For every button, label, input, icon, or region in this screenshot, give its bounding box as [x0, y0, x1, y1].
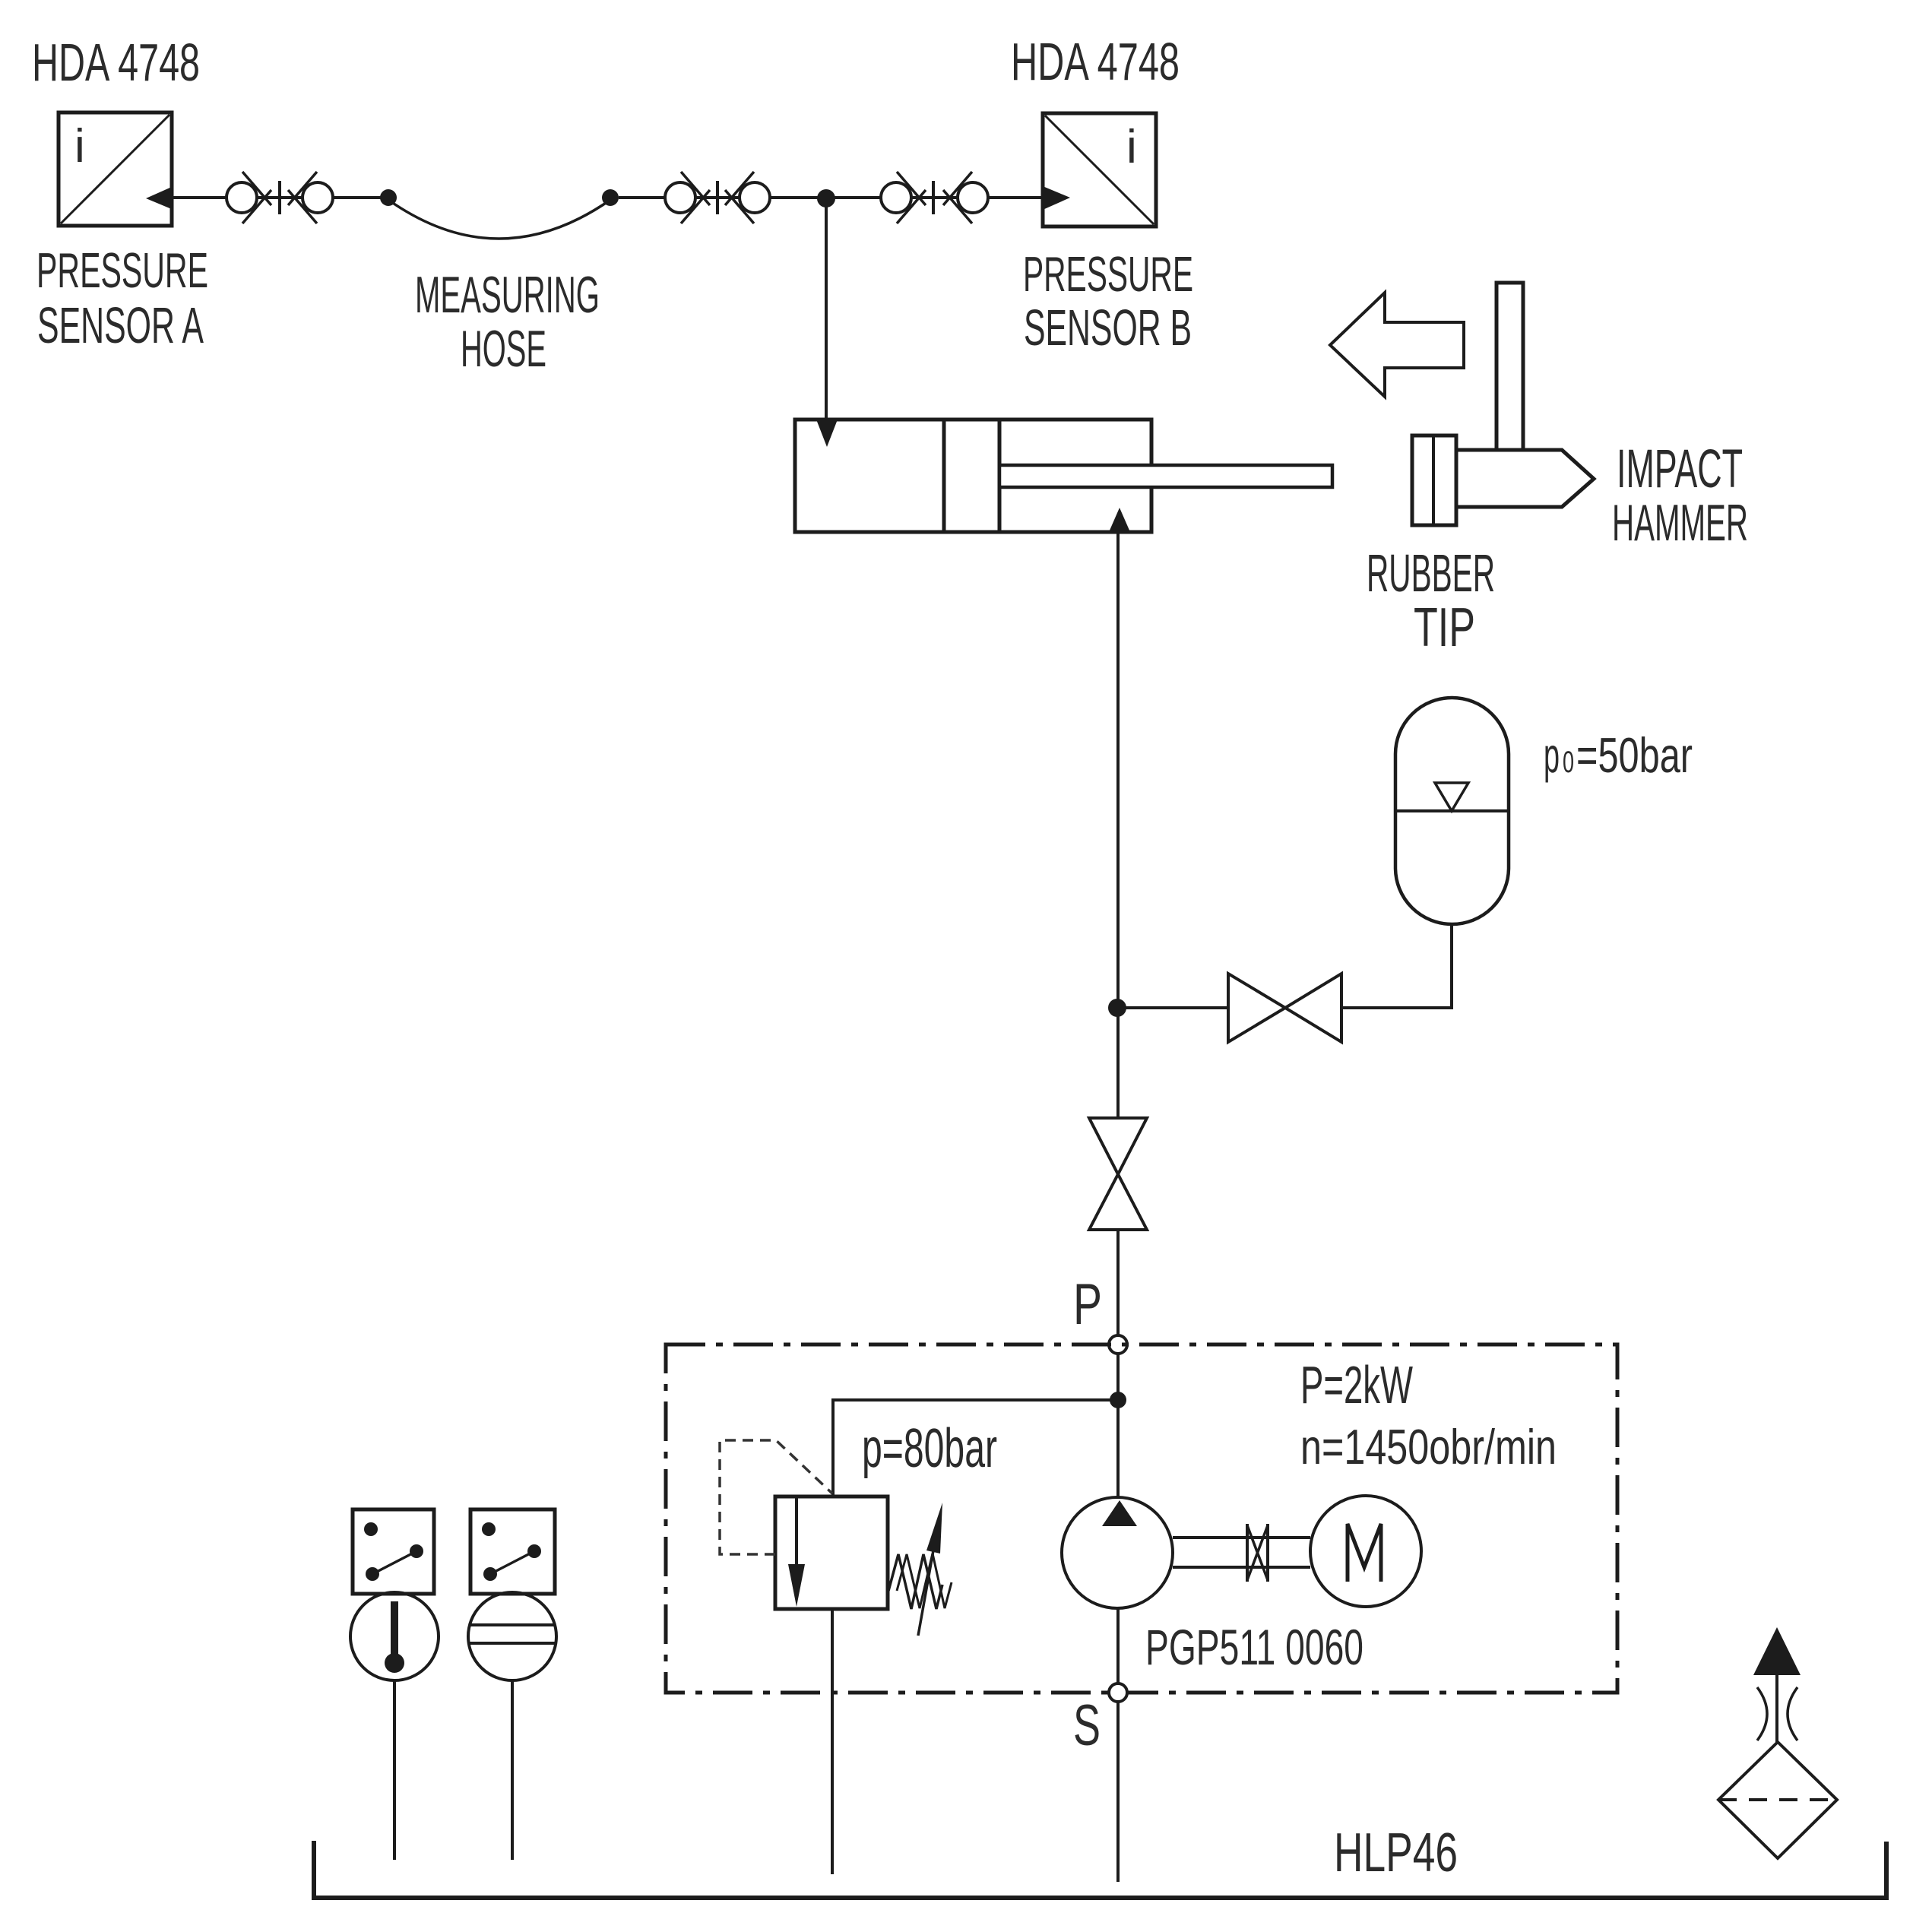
- svg-text:p=80bar: p=80bar: [862, 1418, 997, 1479]
- svg-text:P=2kW: P=2kW: [1300, 1355, 1413, 1414]
- node C (tee to cylinder): [817, 189, 835, 207]
- quick coupling pair 2: [665, 172, 770, 223]
- measuring hose curve: [388, 200, 610, 239]
- svg-text:HDA 4748: HDA 4748: [32, 33, 200, 92]
- svg-text:SENSOR B: SENSOR B: [1024, 299, 1192, 356]
- level switch box: [470, 1509, 555, 1594]
- node A (hose start junction): [380, 189, 397, 206]
- svg-text:IMPACT: IMPACT: [1617, 439, 1743, 499]
- accumulator shut-off valve V1: [1228, 974, 1341, 1042]
- svg-text:SENSOR A: SENSOR A: [37, 297, 204, 354]
- arrow into sensor B: [1043, 186, 1070, 210]
- arrow into cylinder top port: [816, 420, 838, 447]
- wire node C down to cylinder: [825, 198, 828, 420]
- relief valve RV1: [775, 1497, 888, 1609]
- arrow into sensor A: [146, 186, 173, 210]
- svg-text:HAMMER: HAMMER: [1612, 494, 1748, 552]
- thermometer T1: [350, 1592, 439, 1680]
- svg-text:S: S: [1073, 1693, 1101, 1758]
- svg-text:HLP46: HLP46: [1334, 1823, 1458, 1883]
- shaft coupling: [1247, 1524, 1268, 1582]
- thermometer line to tank: [393, 1680, 396, 1860]
- label p0=50bar: [1544, 727, 1693, 783]
- impact direction block arrow: [1330, 293, 1464, 397]
- main pressure line (cylinder to valve): [1116, 532, 1120, 1118]
- wire node E to relief valve: [833, 1400, 1118, 1497]
- svg-text:p: p: [1544, 727, 1560, 783]
- svg-text:RUBBER: RUBBER: [1367, 543, 1495, 603]
- wire accumulator to shut-off valve: [1341, 924, 1452, 1008]
- arrow into cylinder bottom port: [1109, 508, 1130, 532]
- power unit enclosure (dash-dot): [666, 1344, 1617, 1693]
- relief valve adjustment arrow: [918, 1550, 933, 1636]
- node D (tee to accumulator): [1108, 999, 1126, 1017]
- motor M1: [1310, 1496, 1421, 1607]
- svg-text:n=1450obr/min: n=1450obr/min: [1300, 1419, 1557, 1474]
- shut-off valve V2 (main line): [1089, 1118, 1147, 1230]
- wire node B to coupling 2: [619, 196, 665, 199]
- wire valve V2 to port P: [1116, 1230, 1120, 1335]
- wire coupling 1 to node A: [333, 196, 388, 199]
- svg-text:HOSE: HOSE: [461, 320, 546, 378]
- relief valve drain to tank: [831, 1609, 834, 1874]
- svg-text:PRESSURE: PRESSURE: [36, 242, 208, 298]
- svg-text:P: P: [1073, 1272, 1102, 1337]
- wire coupling 3 to sensor B: [988, 196, 1043, 199]
- wire sensor A to coupling 1: [172, 196, 226, 199]
- air breather filter: [1718, 1627, 1837, 1858]
- relief valve spring: [888, 1554, 942, 1609]
- pressure sensor B (HDA 4748): [1043, 113, 1156, 226]
- rubber tip: [1412, 435, 1456, 525]
- node E (tee to relief valve): [1110, 1392, 1126, 1408]
- relief valve pilot line (dashed): [720, 1440, 832, 1554]
- wire valve V1 to node D: [1117, 1006, 1228, 1009]
- svg-text:MEASURING: MEASURING: [415, 266, 600, 324]
- wire port P to pump: [1116, 1354, 1120, 1498]
- level gauge line to tank: [511, 1680, 514, 1860]
- temperature switch box: [353, 1509, 434, 1594]
- impact hammer head: [1452, 450, 1594, 507]
- shaft pump to motor: [1173, 1538, 1310, 1567]
- svg-text:PRESSURE: PRESSURE: [1023, 246, 1193, 302]
- pressure sensor A (HDA 4748): [59, 112, 172, 226]
- svg-text:=50bar: =50bar: [1576, 727, 1693, 783]
- pump PGP511 0060: [1062, 1497, 1173, 1608]
- impact hammer handle: [1497, 283, 1523, 450]
- pump suction line to tank: [1116, 1608, 1120, 1882]
- wire coupling 2 to coupling 3 through node C: [770, 196, 881, 199]
- level gauge L1: [468, 1592, 556, 1680]
- tank outline: [314, 1841, 1886, 1898]
- svg-text:HDA 4748: HDA 4748: [1011, 32, 1180, 91]
- cylinder CYL1: [795, 420, 1332, 532]
- svg-text:i: i: [1126, 121, 1137, 173]
- node B (hose end junction): [602, 189, 619, 206]
- quick coupling pair 1: [226, 172, 333, 223]
- svg-text:TIP: TIP: [1414, 597, 1475, 658]
- svg-text:0: 0: [1563, 746, 1574, 779]
- svg-text:i: i: [74, 120, 85, 173]
- svg-text:PGP511 0060: PGP511 0060: [1145, 1619, 1363, 1675]
- accumulator (bladder): [1395, 698, 1509, 924]
- port S: [1109, 1683, 1127, 1702]
- quick coupling pair 3: [881, 172, 988, 223]
- port P: [1109, 1335, 1127, 1354]
